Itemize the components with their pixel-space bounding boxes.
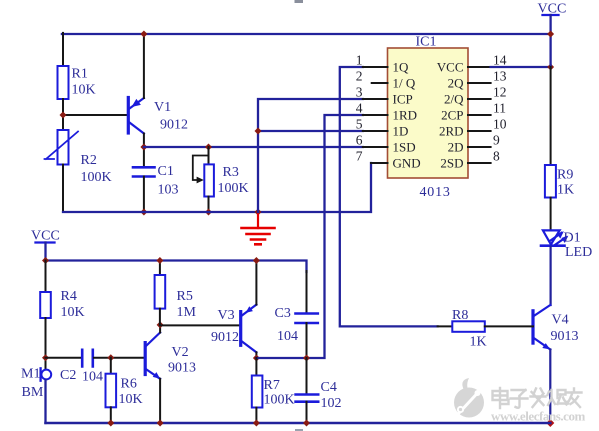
pin 9 stub xyxy=(448,133,500,155)
svg-text:R5: R5 xyxy=(177,289,193,304)
svg-text:9013: 9013 xyxy=(551,329,579,344)
wire 1RD pin4 net xyxy=(307,115,363,358)
svg-text:R7: R7 xyxy=(264,378,280,393)
svg-text:1M: 1M xyxy=(177,305,197,320)
wire R3 top lead xyxy=(208,147,210,164)
svg-text:R1: R1 xyxy=(72,67,88,82)
svg-text:V3: V3 xyxy=(218,308,235,323)
resistor R8 xyxy=(452,308,487,350)
resistor R5 xyxy=(155,275,197,320)
node R3 bottom xyxy=(205,209,212,216)
wire top VCC rail xyxy=(62,33,551,35)
resistor R7 xyxy=(252,376,295,408)
wire VCC down to R9 xyxy=(550,67,552,165)
svg-text:8: 8 xyxy=(493,149,500,164)
pin 11 stub xyxy=(441,101,506,123)
svg-text:5: 5 xyxy=(356,117,363,132)
node C2/R6/base junction xyxy=(107,354,114,361)
watermark logo xyxy=(454,378,484,418)
svg-text:C3: C3 xyxy=(275,306,291,321)
svg-text:C1: C1 xyxy=(158,164,174,179)
svg-text:C2: C2 xyxy=(60,368,76,383)
wire V2 collector up xyxy=(159,325,161,333)
node R4/C2/mic junction xyxy=(42,354,49,361)
pin 12 stub xyxy=(444,85,507,107)
svg-text:R4: R4 xyxy=(61,289,77,304)
svg-text:11: 11 xyxy=(493,101,506,116)
svg-text:10K: 10K xyxy=(61,305,85,320)
svg-text:10K: 10K xyxy=(72,83,96,98)
wire R8 left black lead xyxy=(438,325,453,327)
svg-text:R3: R3 xyxy=(223,165,239,180)
pin 2 stub xyxy=(356,69,416,91)
wire C4 bottom lead xyxy=(306,402,308,423)
pin 8 stub xyxy=(440,149,500,171)
wire R5 top lead xyxy=(159,261,161,276)
wire R8 to V4 base xyxy=(485,325,533,327)
node V2 collector/R5 junction xyxy=(157,321,164,328)
microphone M1 BM xyxy=(21,367,51,401)
capacitor C2 xyxy=(60,350,103,385)
grey mark top xyxy=(295,0,304,3)
node VCC top rail junction xyxy=(547,31,554,38)
svg-text:LED: LED xyxy=(565,245,592,260)
wire C3 bottom lead xyxy=(306,323,308,358)
svg-text:2: 2 xyxy=(356,69,363,84)
node R1/R2/base junction xyxy=(60,112,67,119)
svg-text:1: 1 xyxy=(356,53,363,68)
svg-text:9012: 9012 xyxy=(160,118,188,133)
svg-text:100K: 100K xyxy=(218,181,249,196)
wire R9 to D1 xyxy=(550,198,552,231)
node pin14 junction xyxy=(547,64,554,71)
resistor R1 xyxy=(58,66,96,99)
wire V1 collector down to C1 xyxy=(143,134,145,168)
svg-text:2SD: 2SD xyxy=(440,156,463,171)
resistor R4 xyxy=(40,289,84,320)
svg-text:4013: 4013 xyxy=(420,185,451,200)
pin 7 stub xyxy=(356,149,421,171)
svg-text:1Q: 1Q xyxy=(393,60,410,75)
pin 14 stub xyxy=(437,53,507,75)
svg-text:10: 10 xyxy=(493,117,507,132)
svg-text:9013: 9013 xyxy=(168,361,196,376)
wire R1 bottom to node xyxy=(62,99,64,130)
wire bottom-left VCC rail xyxy=(46,261,307,273)
wire V1 base xyxy=(63,114,127,116)
svg-text:2RD: 2RD xyxy=(439,124,464,139)
wire R5 bottom lead xyxy=(159,309,161,325)
node R7 bottom xyxy=(253,420,260,427)
svg-text:ICP: ICP xyxy=(393,92,413,107)
svg-text:R9: R9 xyxy=(557,168,573,183)
resistor R2 thermistor xyxy=(45,130,112,185)
svg-text:1K: 1K xyxy=(557,183,574,198)
node V1 emitter on top rail xyxy=(140,31,147,38)
svg-text:IC1: IC1 xyxy=(416,35,437,50)
svg-text:102: 102 xyxy=(321,396,342,411)
node C3/C4/1RD junction xyxy=(303,355,310,362)
node V1 collector junction xyxy=(140,144,147,151)
svg-text:2D: 2D xyxy=(448,140,464,155)
svg-text:14: 14 xyxy=(493,53,507,68)
svg-text:103: 103 xyxy=(158,183,179,198)
svg-text:1D: 1D xyxy=(393,124,409,139)
resistor R9 xyxy=(545,165,574,198)
wire C2 left segment xyxy=(46,357,82,359)
wire C2 right segment to V2 base xyxy=(94,357,144,359)
wire bottom rail xyxy=(46,422,551,425)
node R3 top junction xyxy=(205,144,212,151)
wire V2 collector to V3 base xyxy=(160,324,241,326)
resistor R6 xyxy=(106,374,143,408)
wire V4 emitter to bottom rail xyxy=(549,350,551,424)
VCC top right xyxy=(538,2,567,68)
svg-text:10K: 10K xyxy=(119,392,143,407)
node V4 emitter on bottom rail xyxy=(546,419,554,427)
svg-text:7: 7 xyxy=(356,149,363,164)
svg-text:M1: M1 xyxy=(21,367,40,382)
svg-text:www.elecfans.com: www.elecfans.com xyxy=(491,409,586,424)
svg-text:GND: GND xyxy=(393,156,421,171)
node ground junction xyxy=(255,209,262,216)
svg-text:V4: V4 xyxy=(552,313,569,328)
wire C3 top lead xyxy=(306,271,308,314)
svg-text:100K: 100K xyxy=(264,393,295,408)
node C4 bottom xyxy=(303,420,310,427)
wire V1 emitter up xyxy=(143,34,145,98)
node VCC rail left junction xyxy=(42,257,49,264)
wire C1 bottom to ground rail xyxy=(143,177,145,213)
watermark text elecfans xyxy=(491,409,586,424)
wire R1 top lead xyxy=(62,33,64,66)
svg-text:104: 104 xyxy=(82,370,103,385)
transistor V1 9012 PNP xyxy=(128,98,188,134)
capacitor C4 xyxy=(296,380,342,411)
grey mark bottom xyxy=(295,429,303,431)
svg-text:2CP: 2CP xyxy=(441,108,463,123)
svg-text:D1: D1 xyxy=(564,231,581,246)
svg-text:VCC: VCC xyxy=(31,229,60,244)
pin 4 stub xyxy=(356,101,417,123)
svg-text:13: 13 xyxy=(493,69,507,84)
svg-text:R2: R2 xyxy=(81,153,97,168)
potentiometer R3 xyxy=(193,156,249,197)
wire VCC pin14 net xyxy=(491,66,551,68)
svg-text:4: 4 xyxy=(356,101,363,116)
node R6 bottom xyxy=(107,420,114,427)
svg-text:9: 9 xyxy=(493,133,500,148)
svg-text:2/Q: 2/Q xyxy=(444,92,464,107)
pin 5 stub xyxy=(356,117,409,139)
svg-text:1/ Q: 1/ Q xyxy=(393,76,416,91)
wire ground rail with pin7 riser xyxy=(63,163,371,212)
wire 1D pin5 net xyxy=(258,130,363,132)
node V3 emitter on rail xyxy=(253,257,260,264)
wire C4 top lead xyxy=(306,358,308,395)
node ICP/1D junction xyxy=(255,128,262,135)
svg-text:12: 12 xyxy=(493,85,507,100)
node C1 bottom xyxy=(140,209,147,216)
capacitor C3 xyxy=(275,306,318,344)
wire D1 to V4 collector xyxy=(549,247,551,305)
transistor V4 9013 NPN xyxy=(533,305,579,350)
wire R7 bottom lead xyxy=(255,408,257,424)
svg-text:VCC: VCC xyxy=(437,60,464,75)
svg-text:2Q: 2Q xyxy=(448,76,465,91)
pin 13 stub xyxy=(448,69,507,91)
wire V3 collector to C3 node xyxy=(256,357,306,359)
wire 1Q pin1 net xyxy=(340,67,438,326)
svg-text:6: 6 xyxy=(356,133,363,148)
wire R3 bottom lead xyxy=(208,197,210,213)
watermark text dianzifashaoyou xyxy=(493,388,582,408)
ground xyxy=(242,213,275,244)
svg-text:R6: R6 xyxy=(121,377,137,392)
wire R7 top lead xyxy=(255,358,257,376)
pin 3 stub xyxy=(356,85,413,107)
svg-text:V2: V2 xyxy=(172,345,189,360)
svg-text:1SD: 1SD xyxy=(393,140,416,155)
pin 10 stub xyxy=(439,117,507,139)
op-amp IC1 4013 body xyxy=(388,35,469,201)
node V3 collector/R7 junction xyxy=(253,355,260,362)
pin 1 stub xyxy=(356,53,409,75)
wire ICP pin3 net xyxy=(258,99,363,212)
svg-text:V1: V1 xyxy=(154,100,171,115)
wire R2 bottom to ground rail xyxy=(62,165,64,213)
wire R6 bottom lead xyxy=(110,407,112,423)
node V2 emitter on rail xyxy=(157,420,164,427)
svg-text:BM: BM xyxy=(22,385,44,400)
svg-text:104: 104 xyxy=(277,329,298,344)
wire R4 top lead xyxy=(45,261,47,293)
svg-text:9012: 9012 xyxy=(211,330,239,345)
VCC bottom left xyxy=(31,229,60,261)
wire V2 emitter down xyxy=(159,379,161,423)
wire mic to bottom rail xyxy=(44,380,46,423)
wire 1SD pin6 net xyxy=(144,146,363,148)
capacitor C1 xyxy=(133,164,179,198)
svg-text:3: 3 xyxy=(356,85,363,100)
wire R6 top lead xyxy=(110,358,112,374)
transistor V3 9012 PNP xyxy=(211,305,256,353)
wire V3 emitter up to rail xyxy=(255,261,257,305)
wire R4 bottom lead xyxy=(45,318,47,370)
svg-text:100K: 100K xyxy=(81,170,112,185)
diode D1 LED xyxy=(541,230,592,260)
svg-text:C4: C4 xyxy=(321,380,337,395)
wire V3 collector down xyxy=(255,352,257,358)
pin 6 stub xyxy=(356,133,416,155)
node R5 top on rail xyxy=(156,257,163,264)
transistor V2 9013 NPN xyxy=(145,333,196,379)
svg-text:1RD: 1RD xyxy=(393,108,418,123)
svg-text:R8: R8 xyxy=(452,308,468,323)
svg-text:1K: 1K xyxy=(470,335,487,350)
